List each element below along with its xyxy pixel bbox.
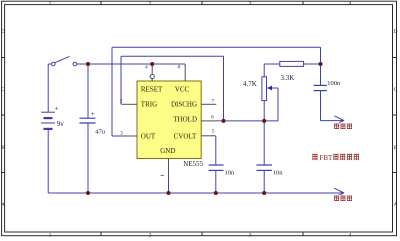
svg-text:8: 8 xyxy=(178,65,181,71)
wire: TRIG net (pin2 - top - pin6 junction) xyxy=(121,56,224,121)
chip pin stubs xyxy=(122,66,217,175)
svg-text:NE555: NE555 xyxy=(183,160,203,168)
svg-text:4: 4 xyxy=(349,1,352,7)
svg-text:GND: GND xyxy=(160,147,175,155)
pin 7 DISCHG stub xyxy=(201,103,216,105)
capacitor 100n xyxy=(314,64,342,121)
wire: GND pin to rail xyxy=(168,173,170,194)
wire: OUT net (pin3 - top - 3.3K right) xyxy=(112,47,321,136)
wire: CVOLT to 10n cap xyxy=(215,136,217,165)
svg-text:D: D xyxy=(1,29,5,35)
pin 3 OUT stub xyxy=(122,135,138,137)
note 接FBT初级绕组 (red) xyxy=(312,154,359,162)
svg-text:5: 5 xyxy=(212,129,215,135)
port arrow (bottom alligator clip) xyxy=(334,188,344,195)
pin 4 RESET stub + bubble xyxy=(151,66,153,74)
capacitor C1 47u xyxy=(79,64,105,193)
svg-text:C: C xyxy=(394,87,398,93)
svg-text:A: A xyxy=(1,202,5,208)
pin numbers xyxy=(120,65,215,137)
svg-text:TRIG: TRIG xyxy=(141,100,157,108)
svg-text:FBT: FBT xyxy=(320,154,334,162)
svg-text:1: 1 xyxy=(49,1,52,7)
svg-text:2: 2 xyxy=(149,1,152,7)
svg-text:4: 4 xyxy=(349,232,352,238)
svg-text:10n: 10n xyxy=(225,170,236,177)
svg-text:10n: 10n xyxy=(273,170,284,177)
switch S1 xyxy=(52,56,77,65)
pot wiper arrow xyxy=(267,86,278,121)
pin 8 VCC stub xyxy=(184,66,186,81)
potentiometer 4.7K xyxy=(243,64,267,165)
pin 1 GND stub xyxy=(168,159,170,173)
pin 5 CVOLT stub xyxy=(201,135,216,137)
svg-text:+: + xyxy=(91,110,95,118)
wire: output to top alligator clip xyxy=(321,120,342,122)
wire: THOLD net horizontal xyxy=(216,120,278,122)
svg-text:1: 1 xyxy=(49,232,52,238)
svg-text:D: D xyxy=(394,29,398,35)
capacitor 10n (pin5) xyxy=(209,165,235,193)
svg-text:C: C xyxy=(1,87,5,93)
svg-text:3: 3 xyxy=(120,130,123,136)
svg-text:THOLD: THOLD xyxy=(173,116,197,124)
svg-text:3.3K: 3.3K xyxy=(281,74,295,82)
svg-text:3: 3 xyxy=(249,1,252,7)
battery 9v xyxy=(41,112,55,129)
svg-text:47u: 47u xyxy=(95,129,106,136)
svg-text:OUT: OUT xyxy=(141,133,156,141)
svg-text:DISCHG: DISCHG xyxy=(171,100,197,108)
pin 2 TRIG stub xyxy=(122,103,138,105)
svg-text:CVOLT: CVOLT xyxy=(174,133,197,141)
chip U1 NE555 body xyxy=(137,81,204,168)
wire: battery minus to ground rail xyxy=(47,129,49,193)
svg-text:9v: 9v xyxy=(57,120,65,128)
svg-text:B: B xyxy=(394,145,398,151)
ground rail wire xyxy=(48,192,341,194)
svg-text:4.7K: 4.7K xyxy=(243,80,257,88)
svg-text:A: A xyxy=(394,202,398,208)
chip pin names xyxy=(141,86,197,155)
label 鳄鱼夹 (bottom, fake CJK strokes) xyxy=(334,196,352,202)
svg-text:2: 2 xyxy=(149,232,152,238)
wire: battery to switch xyxy=(48,64,51,112)
svg-text:6: 6 xyxy=(211,114,214,120)
port arrow (top alligator clip) xyxy=(334,116,344,123)
svg-text:7: 7 xyxy=(212,98,215,104)
wire: VCC top rail xyxy=(77,64,186,67)
label 鳄鱼夹 (top, fake CJK strokes) xyxy=(334,124,352,130)
svg-text:RESET: RESET xyxy=(141,86,163,94)
resistor 3.3K xyxy=(264,61,320,82)
capacitor 10n (pot bottom) xyxy=(257,165,284,193)
pin 6 THOLD stub xyxy=(201,120,216,122)
svg-text:B: B xyxy=(1,145,5,151)
svg-text:VCC: VCC xyxy=(175,86,190,94)
svg-text:+: + xyxy=(55,105,59,113)
svg-text:100n: 100n xyxy=(327,80,341,87)
svg-text:4: 4 xyxy=(145,65,148,71)
svg-text:3: 3 xyxy=(249,232,252,238)
